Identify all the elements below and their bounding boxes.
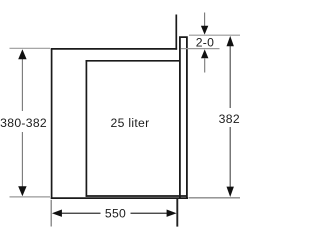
dim 382: dimension line lower stem: [229, 127, 231, 188]
dim 2-0: lower extension line (niche top level): [181, 48, 220, 50]
dim 380-382: bottom extension line: [10, 196, 51, 198]
dim 550: left arrowhead: [52, 210, 62, 217]
dim 380-382: dimension line lower stem: [21, 132, 23, 188]
niche outer box: top wall: [51, 48, 177, 50]
dim 550: left extension line (below niche): [50, 200, 52, 227]
dim 380-382: dimension line upper stem: [21, 58, 23, 112]
dim 2-0: lower arrow stem: [204, 58, 206, 72]
dim 382: dimension line upper stem: [229, 45, 231, 108]
dim 550: dimension line right stem: [131, 212, 168, 214]
appliance body: top wall: [86, 60, 181, 62]
appliance body: bottom wall: [86, 195, 187, 197]
dim 2-0: upper arrow stem: [204, 13, 206, 27]
niche outer box: left wall: [51, 48, 53, 199]
appliance front frame (protruding strip): [180, 37, 187, 197]
svg-text:550: 550: [105, 206, 126, 220]
dim 2-0: lower up arrowhead: [201, 49, 208, 58]
dim 550: dimension line left stem: [61, 212, 101, 214]
dim 380-382: down arrowhead: [18, 186, 26, 196]
dim 550: right arrowhead: [167, 210, 177, 217]
svg-text:2-0: 2-0: [196, 36, 215, 50]
dim 382: up arrowhead: [227, 36, 234, 46]
svg-text:25 liter: 25 liter: [111, 116, 150, 130]
niche outer box: bottom shelf: [51, 197, 188, 199]
appliance body: left wall: [85, 60, 87, 197]
dim 382: bottom extension line (to right edge): [189, 197, 241, 199]
dim 2-0: upper down arrowhead: [201, 26, 208, 35]
niche front panel upper edge (vertical above top right corner): [175, 15, 177, 50]
svg-text:380-382: 380-382: [0, 116, 47, 130]
svg-text:382: 382: [219, 112, 240, 126]
dim 382: down arrowhead: [227, 187, 234, 197]
dim 380-382: up arrowhead: [18, 49, 26, 59]
dim 380-382: top extension line: [10, 47, 51, 49]
dim 550: right extension line (below front): [176, 199, 178, 227]
dim 2-0: upper extension line (front frame top level): [189, 34, 240, 36]
